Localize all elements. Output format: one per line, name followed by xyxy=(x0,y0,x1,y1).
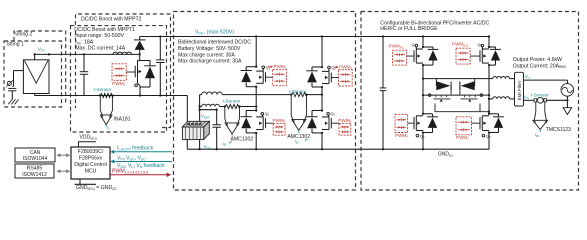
wire battery bus upper phase xyxy=(199,95,201,150)
svg-text:PWM3: PWM3 xyxy=(273,118,286,124)
transistor Q1 leg1 top + diode + gate driver PWM2 xyxy=(255,37,257,67)
resistor shunt I-sensor boost xyxy=(99,94,101,96)
svg-text:PWM7: PWM7 xyxy=(456,135,469,141)
svg-text:Output Power: 4.6kW: Output Power: 4.6kW xyxy=(513,57,562,63)
svg-text:Output Current: 20ARMS: Output Current: 20ARMS xyxy=(513,63,567,69)
svg-text:String 1: String 1 xyxy=(7,41,24,47)
transistor Q2 leg1 bottom + diode + gate driver PWM3 xyxy=(246,110,256,112)
wire HERIC switch row xyxy=(423,94,489,96)
svg-text:Battery Voltage: 50V- 500V: Battery Voltage: 50V- 500V xyxy=(178,46,241,52)
svg-text:CAN: CAN xyxy=(30,150,41,156)
capacitor Y-cap xyxy=(8,87,16,89)
CAN transceiver box ISOW1044 xyxy=(15,148,55,162)
svg-text:I-Sensor: I-Sensor xyxy=(223,98,241,103)
ground AC side xyxy=(566,100,568,107)
op-amp TMCS1123 sense xyxy=(535,102,537,112)
svg-text:RS485: RS485 xyxy=(27,166,43,172)
transistor QD inverter right-bottom + diode + gate driver PWM7 xyxy=(489,113,499,115)
inductor phase leg2 xyxy=(202,92,222,95)
inductor boost L xyxy=(113,52,131,54)
svg-text:HERIC or FULL BRIDGE: HERIC or FULL BRIDGE xyxy=(380,26,438,32)
svg-text:PWM6: PWM6 xyxy=(395,133,408,139)
wire VL1 to grid xyxy=(524,79,568,81)
battery pack icon xyxy=(198,109,200,111)
capacitor DC link C2 xyxy=(382,35,384,37)
transistor QA inverter left-top + diode + gate driver PWMA xyxy=(422,37,424,48)
PV panel String 1 xyxy=(23,60,49,94)
ground chassis xyxy=(8,99,12,104)
svg-text:String 2: String 2 xyxy=(15,32,32,38)
Configurable PFC/Inverter AC/DC dashed box xyxy=(361,12,579,191)
wire HERIC top / L1 phase xyxy=(423,78,489,80)
transistor Q3 leg2 top + diode + gate driver PWM4 xyxy=(321,37,323,68)
wire VN to grid xyxy=(524,99,538,101)
gate driver PWM1 box xyxy=(112,64,126,81)
svg-text:TMCS1123: TMCS1123 xyxy=(546,127,572,133)
svg-text:ISOW1412: ISOW1412 xyxy=(22,172,47,178)
diode HERIC right xyxy=(474,79,476,86)
svg-text:I-Sensor: I-Sensor xyxy=(531,92,549,97)
transistor QB inverter right-top + diode + gate driver PWMB xyxy=(488,37,490,48)
svg-text:F280039C/: F280039C/ xyxy=(78,149,104,155)
svg-text:Digital Control: Digital Control xyxy=(74,162,107,168)
EMI filter box xyxy=(515,72,524,106)
svg-text:INA181: INA181 xyxy=(114,117,131,123)
svg-text:Input range: 50-500V: Input range: 50-500V xyxy=(75,33,124,39)
op-amp AMC1302 leg1 xyxy=(224,107,226,119)
svg-text:Max. DC current: 14A: Max. DC current: 14A xyxy=(75,46,125,52)
transistor Q4 leg2 bottom + diode + gate driver PWM5 xyxy=(312,110,322,112)
node GND_MCU = GND_DC xyxy=(79,179,81,184)
earth leakage branch xyxy=(14,70,24,72)
svg-text:GNDMCU = GNDDC: GNDMCU = GNDDC xyxy=(76,185,118,191)
wire VDC+ rail xyxy=(140,36,489,38)
wire CAN to MCU double arrow xyxy=(60,154,67,156)
svg-text:I-Sensor: I-Sensor xyxy=(94,87,112,92)
resistor shunt I-sensor leg2 xyxy=(290,93,292,95)
DC/DC Boost with MPPT1 dashed box xyxy=(71,26,167,132)
resistor shunt I-sensor leg1 xyxy=(224,105,226,107)
diode HERIC left xyxy=(435,79,437,86)
svg-text:AMC1302: AMC1302 xyxy=(287,134,310,140)
diode boost D1 xyxy=(139,37,141,41)
wire GND_DC rail VDC- xyxy=(187,148,489,150)
wire VPV top xyxy=(34,54,36,59)
String 2 dashed box xyxy=(14,31,66,103)
diode boost body xyxy=(149,61,151,66)
AC grid source xyxy=(561,84,574,97)
inductor output N xyxy=(488,98,490,100)
svg-text:DC/DC Boost with MPPT1: DC/DC Boost with MPPT1 xyxy=(74,27,135,33)
svg-text:PWM5: PWM5 xyxy=(338,118,351,124)
inductor output L1 xyxy=(489,78,493,80)
String 1 dashed box xyxy=(4,41,62,107)
svg-text:F28P55xx: F28P55xx xyxy=(79,156,103,162)
svg-text:MCU: MCU xyxy=(85,169,97,175)
op-amp AMC1302 leg2 xyxy=(290,95,292,116)
wire HERIC bottom bracket xyxy=(435,104,489,112)
op-amp INA181 xyxy=(99,96,101,111)
transistor HERIC switch left xyxy=(428,94,431,97)
DC/DC Boost with MPPT2 dashed box xyxy=(76,14,171,128)
Bidirectional interleaved DC/DC dashed box xyxy=(174,12,356,191)
wire RS485 to MCU double arrow xyxy=(60,170,67,172)
svg-text:EMI Filter: EMI Filter xyxy=(517,80,522,100)
wire PV negative bottom xyxy=(34,94,36,96)
transistor HERIC switch right xyxy=(480,94,483,97)
MCU box F280039C xyxy=(71,147,110,179)
RS485 transceiver box ISOW1412 xyxy=(15,164,54,178)
capacitor input Cin xyxy=(83,54,85,71)
svg-text:Max discharge current: 30A: Max discharge current: 30A xyxy=(178,59,242,65)
svg-text:DC/DC Boost with MPPT2: DC/DC Boost with MPPT2 xyxy=(81,17,142,23)
wire lower phase leg1 xyxy=(198,105,200,107)
svg-text:PWMA,C: PWMA,C xyxy=(389,44,405,50)
svg-text:PWM1: PWM1 xyxy=(112,81,126,87)
inductor phase leg1 xyxy=(202,104,220,106)
svg-text:Max charge current: 30A: Max charge current: 30A xyxy=(178,52,235,58)
svg-text:PWMB,D: PWMB,D xyxy=(452,42,468,48)
transistor boost MOSFET with body diode xyxy=(139,54,141,60)
capacitor DC link C1 xyxy=(159,35,161,37)
svg-text:Bidirectional interleaved DC/D: Bidirectional interleaved DC/DC xyxy=(178,40,251,46)
svg-text:AMC1302: AMC1302 xyxy=(231,137,254,143)
svg-text:I-Sensor: I-Sensor xyxy=(289,89,307,94)
svg-text:ISOW1044: ISOW1044 xyxy=(23,156,48,162)
transistor QC inverter left-bottom + diode + gate driver PWM6 xyxy=(423,113,433,115)
capacitor battery side xyxy=(216,110,218,125)
